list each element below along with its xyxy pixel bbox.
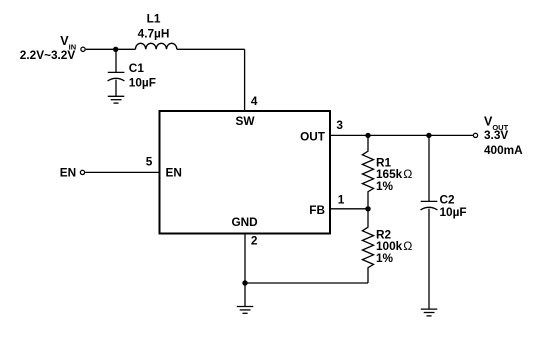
svg-text:3: 3 xyxy=(336,118,343,132)
wire FB xyxy=(331,208,368,210)
wire C2 upper lead xyxy=(428,135,430,201)
svg-text:GND: GND xyxy=(231,215,258,229)
svg-text:C1: C1 xyxy=(129,61,145,75)
svg-text:EN: EN xyxy=(166,166,182,180)
IC U1 body xyxy=(160,111,331,234)
svg-text:4: 4 xyxy=(251,94,258,108)
junction node (OUT/C2) xyxy=(426,133,431,138)
wire OUT net xyxy=(331,134,473,136)
wire EN xyxy=(85,171,158,173)
resistor R1 xyxy=(362,138,373,206)
terminal VIN xyxy=(81,47,85,51)
ground (GND pin) xyxy=(237,307,254,314)
svg-text:L1: L1 xyxy=(147,12,161,26)
junction node (FB/R1/R2) xyxy=(365,206,370,211)
ground (C2) xyxy=(421,309,438,316)
wire GND vertical xyxy=(244,235,246,307)
capacitor C2 xyxy=(421,201,438,309)
svg-text:5: 5 xyxy=(146,154,153,168)
svg-text:1%: 1% xyxy=(376,179,394,193)
svg-text:10µF: 10µF xyxy=(129,76,156,90)
svg-text:2.2V~3.2V: 2.2V~3.2V xyxy=(20,48,76,62)
svg-text:4.7µH: 4.7µH xyxy=(138,26,170,40)
terminal VOUT xyxy=(473,133,477,137)
wire R2 bottom to ground node xyxy=(245,282,368,284)
svg-text:1%: 1% xyxy=(376,251,394,265)
svg-text:OUT: OUT xyxy=(300,129,326,143)
wire inductor to SW corner xyxy=(177,48,245,50)
capacitor C1 xyxy=(108,72,125,96)
svg-text:2: 2 xyxy=(251,234,258,248)
junction node (Vin/C1) xyxy=(113,47,118,52)
resistor R2 xyxy=(362,211,373,283)
svg-text:3.3V: 3.3V xyxy=(484,128,508,142)
svg-text:10µF: 10µF xyxy=(440,205,467,219)
wire Vin terminal to inductor xyxy=(86,48,136,50)
terminal EN xyxy=(80,170,84,174)
svg-text:EN: EN xyxy=(60,166,76,180)
svg-text:400mA: 400mA xyxy=(484,143,523,157)
junction node (GND) xyxy=(242,280,247,285)
inductor L1 xyxy=(135,43,176,49)
ground (C1) xyxy=(108,96,125,103)
svg-text:1: 1 xyxy=(338,193,345,207)
wire C1 upper lead xyxy=(115,49,117,72)
wire SW vertical xyxy=(244,49,246,110)
junction node (OUT/R1) xyxy=(365,133,370,138)
svg-text:FB: FB xyxy=(309,203,325,217)
svg-text:SW: SW xyxy=(235,114,255,128)
